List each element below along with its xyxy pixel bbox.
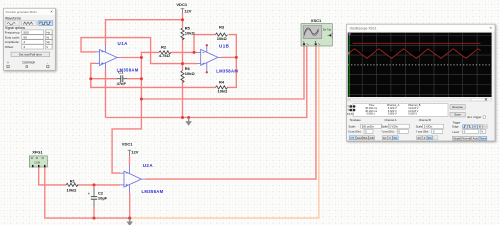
svg-text:R3: R3 [219, 24, 225, 29]
wire U2A pin4 to bottom rail [129, 193, 131, 218]
svg-text:4: 4 [23, 45, 25, 49]
power VDC1 lower 12V [122, 142, 139, 157]
WINDOWS [4, 8, 56, 70]
svg-text:+: + [7, 61, 9, 65]
svg-text:XFG1: XFG1 [32, 150, 43, 155]
svg-text:None: None [480, 137, 487, 141]
svg-text:A: A [474, 125, 476, 129]
svg-text:Vp: Vp [46, 40, 50, 44]
scrollbar under screen [348, 98, 492, 101]
svg-text:VDC1: VDC1 [176, 2, 187, 7]
svg-text:Oscilloscope-XSC1: Oscilloscope-XSC1 [350, 27, 377, 31]
svg-text:Scale:: Scale: [416, 124, 423, 128]
wire VDC1 top drop [182, 14, 184, 28]
svg-text:10kΩ: 10kΩ [67, 188, 78, 193]
junction U1A out [140, 56, 143, 59]
wire square net jog to U2A +in [112, 99, 141, 173]
wire R5 bottom to node [182, 38, 184, 64]
svg-text:LM358AM: LM358AM [216, 69, 238, 74]
op-amp U1A [96, 46, 122, 70]
junction R6 bottom / ground rail [181, 116, 184, 119]
ground symbol mid [185, 118, 191, 126]
svg-text:LM358AM: LM358AM [142, 189, 164, 194]
wire C1 left lead [91, 78, 117, 80]
svg-text:4.7kΩ: 4.7kΩ [159, 53, 171, 58]
svg-text:B: B [479, 125, 481, 129]
junction square net / A+ rail [140, 98, 143, 101]
svg-text:Reverse: Reverse [452, 105, 463, 109]
svg-text:Level:: Level: [452, 130, 459, 134]
wire R6 bottom to ground rail [182, 81, 184, 118]
svg-text:Auto: Auto [473, 137, 479, 141]
wire R1 right lead to U2A -in [77, 184, 120, 186]
svg-text:5 V/Div: 5 V/Div [389, 124, 398, 128]
svg-text:-: - [47, 61, 48, 65]
junction VDC1/rail [181, 18, 184, 21]
wire U2A output to scope B+ [146, 46, 316, 179]
pin marker U1B pin8 unconnected [206, 44, 208, 46]
wire R3 right lead [229, 35, 237, 58]
svg-text:B/A: B/A [363, 136, 367, 140]
svg-text:10kΩ: 10kΩ [218, 89, 229, 94]
svg-text:-: - [435, 137, 436, 140]
svg-text:T2-T1: T2-T1 [347, 112, 354, 116]
wire U1B output [222, 56, 237, 58]
svg-text:R2: R2 [161, 45, 167, 50]
svg-text:Set rise/Fall time: Set rise/Fall time [19, 53, 42, 57]
wire ground rail to scope A- [106, 46, 307, 118]
wire junction up to R2 line [141, 52, 159, 57]
wire U1A output to junction [121, 57, 141, 59]
svg-text:LM358AM: LM358AM [117, 67, 139, 72]
svg-text:50: 50 [23, 35, 27, 39]
svg-text:47nF: 47nF [117, 81, 127, 86]
wire U1B out down to R4 [227, 57, 236, 87]
junction U2A pin4 / ground / rail [128, 217, 131, 220]
svg-text:Trigger: Trigger [452, 120, 460, 124]
svg-text:X pos.(Div):: X pos.(Div): [348, 130, 362, 134]
svg-text:Common: Common [22, 61, 35, 65]
svg-text:Single: Single [453, 137, 461, 141]
junction U1B -in node [193, 51, 196, 54]
svg-text:Y pos.(Div):: Y pos.(Div): [381, 130, 395, 134]
wire square net rail to scope A+ [141, 46, 304, 99]
pin marker U1B pin4 unconnected [206, 71, 208, 73]
svg-text:Ext: Ext [483, 125, 487, 129]
wire U1A pin4 to ground rail [105, 70, 107, 118]
svg-text:COM: COM [34, 161, 40, 164]
svg-text:V: V [481, 130, 483, 134]
svg-text:R4: R4 [219, 79, 225, 84]
readout panel [353, 104, 448, 117]
svg-text:500 us/Div: 500 us/Div [362, 124, 375, 128]
svg-text:U1B: U1B [219, 43, 230, 48]
svg-text:VDC1: VDC1 [122, 142, 133, 147]
svg-text:5 V/Div: 5 V/Div [424, 124, 433, 128]
junction R1 / C2 tap [93, 183, 96, 186]
svg-text:U1A: U1A [118, 41, 129, 46]
junction divider node / +in line [181, 62, 184, 65]
instrument XSC1 icon [301, 18, 333, 46]
wire C1 right lead [127, 78, 141, 80]
svg-text:Scale:: Scale: [349, 124, 356, 128]
svg-text:Frequency:: Frequency: [5, 30, 21, 34]
svg-text:0.000 V: 0.000 V [408, 112, 417, 116]
wire R4 left lead to U1A -in net [91, 63, 216, 87]
junction C2 bottom / rail [93, 217, 96, 220]
svg-text:DC: DC [394, 136, 398, 140]
Reverse / Save buttons [450, 105, 465, 110]
svg-text:500: 500 [23, 30, 28, 34]
svg-text:4: 4 [23, 40, 25, 44]
svg-text:Normal: Normal [462, 137, 471, 141]
wire orange scope B- to ground rail [130, 46, 319, 218]
svg-text:Function generator-XFG1: Function generator-XFG1 [6, 10, 38, 14]
junction C1 left / -in net [89, 77, 92, 80]
ground symbol bottom [127, 218, 133, 226]
wire C2 bottom lead [93, 207, 95, 218]
wire R3 left lead drop to -in node [194, 35, 216, 53]
resistor R3 [216, 24, 228, 41]
svg-text:Y pos.(Div):: Y pos.(Div): [416, 130, 430, 134]
svg-text:Scale:: Scale: [381, 124, 388, 128]
svg-text:Duty cycle:: Duty cycle: [5, 35, 20, 39]
svg-text:10µF: 10µF [98, 195, 108, 200]
svg-text:Ext Trig: Ext Trig [323, 29, 332, 32]
svg-text:0.000 s: 0.000 s [366, 112, 375, 116]
junction ground tap [187, 116, 190, 119]
svg-text:Hz: Hz [46, 30, 50, 34]
junction U1B out [235, 56, 238, 59]
svg-text:12V: 12V [184, 8, 191, 13]
wire U1A feedback loop to +in [81, 38, 197, 64]
wire VDC1 lower drop to U2A pin8 [129, 156, 131, 165]
svg-text:Save: Save [454, 113, 461, 117]
svg-text:Amplitude:: Amplitude: [5, 40, 20, 44]
svg-text:Ext. trigger: Ext. trigger [468, 115, 482, 119]
junction C1 right / out net [140, 77, 143, 80]
svg-text:Channel A: Channel A [385, 118, 397, 122]
svg-text:AC: AC [383, 136, 387, 140]
scope screen [348, 33, 492, 97]
wire C2 top lead [93, 185, 95, 189]
wire R6 top lead [182, 64, 184, 71]
svg-text:DC: DC [428, 136, 432, 140]
capacitor C2 [88, 189, 108, 208]
power VDC1 upper 12V [176, 2, 191, 14]
op-amp U1B [197, 46, 222, 72]
wire U1A out net down to A+ rail [140, 58, 142, 100]
svg-text:Channel B: Channel B [419, 118, 431, 122]
svg-text:U2A: U2A [143, 163, 154, 168]
svg-text:12V: 12V [131, 150, 138, 155]
section labels [350, 118, 461, 124]
resistor R1 [66, 178, 78, 192]
wire XFG1 plus pin down [39, 167, 66, 185]
resistor R6 [181, 66, 196, 83]
op-amp U2A [120, 165, 146, 193]
wire R2 right lead to U1B -in [171, 51, 197, 53]
wire 12V rail to U1A pin8 [106, 20, 183, 46]
svg-text:Y/T: Y/T [350, 136, 354, 140]
svg-text:AC: AC [417, 136, 421, 140]
resistor R5 [181, 26, 196, 40]
resistor R2 [159, 45, 171, 59]
svg-text:%: % [46, 35, 49, 39]
svg-text:Offset:: Offset: [5, 45, 14, 49]
svg-text:10kΩ: 10kΩ [185, 31, 196, 36]
svg-text:A/B: A/B [370, 136, 374, 140]
resistor R4 [216, 79, 229, 93]
svg-text:0.000 V: 0.000 V [388, 112, 397, 116]
svg-text:R1: R1 [70, 178, 76, 183]
svg-text:10kΩ: 10kΩ [185, 71, 196, 76]
svg-text:Timebase: Timebase [350, 118, 362, 122]
svg-text:XSC1: XSC1 [311, 18, 322, 23]
svg-text:Waveforms: Waveforms [5, 16, 21, 20]
wire XFG1 com pin down to bottom rail [45, 167, 130, 218]
instrument XFG1 icon [29, 150, 47, 168]
capacitor C1 47nF [117, 69, 128, 86]
svg-text:Add: Add [357, 136, 362, 140]
svg-text:10kΩ: 10kΩ [217, 36, 228, 41]
svg-text:Edge:: Edge: [452, 125, 459, 129]
